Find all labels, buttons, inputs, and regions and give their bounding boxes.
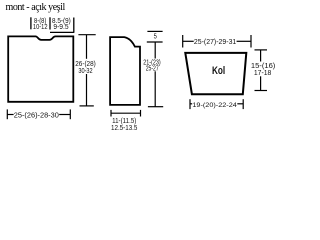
neck measurement underline [50,31,74,33]
sleeve bottom width measurement 19-(20)-22-24 [190,99,243,109]
neck depth measurement 5 [147,30,162,32]
svg-text:19-(20)-22-24: 19-(20)-22-24 [192,102,237,109]
svg-text:5: 5 [154,33,157,40]
shoulder measurement left tick [30,17,32,29]
svg-text:11-(11.5): 11-(11.5) [112,118,136,125]
svg-text:12.5-13.5: 12.5-13.5 [111,125,138,132]
sleeve piece outline [185,53,246,94]
svg-text:25-27: 25-27 [146,65,159,72]
shoulder measurement right tick [73,18,75,33]
back length measurement line 26-(28) 30-32 [78,35,95,106]
neck tick (middle) [49,17,51,29]
svg-text:25-(26)-28-30: 25-(26)-28-30 [14,110,59,119]
svg-text:17-18: 17-18 [254,70,272,77]
sleeve top width measurement 25-(27)-29-31 [183,35,251,48]
svg-text:9-9.5: 9-9.5 [53,24,68,31]
svg-text:mont - açık yeşil: mont - açık yeşil [6,2,66,13]
back piece outline [8,36,73,101]
front piece outline [110,37,140,105]
front length measurement 21-(23) 25-27 [148,42,163,107]
svg-text:Kol: Kol [212,65,225,77]
sleeve length measurement 15-(16) 17-18 [255,50,268,91]
svg-text:30-32: 30-32 [78,68,92,75]
svg-text:26-(28): 26-(28) [75,61,96,68]
svg-text:10-12: 10-12 [33,24,48,31]
svg-text:25-(27)-29-31: 25-(27)-29-31 [194,39,236,46]
back width measurement 25-(26)-28-30 [7,109,70,119]
front width measurement 11-(11.5) 12.5-13.5 [111,110,141,117]
